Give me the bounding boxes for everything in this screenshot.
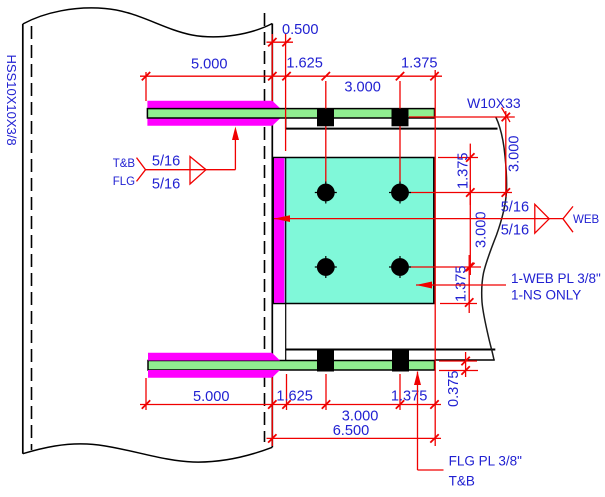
ext line column face top	[271, 34, 273, 101]
ext line plate left end	[145, 72, 147, 101]
ext line web plate top right	[438, 157, 478, 159]
ext line flange plate top right	[439, 360, 477, 362]
svg-text:FLG PL 3/8": FLG PL 3/8"	[449, 454, 523, 469]
svg-text:W10X33: W10X33	[467, 95, 521, 111]
bottom flange weld lower (magenta)	[148, 370, 280, 378]
leader 1-WEB PL	[416, 284, 506, 286]
web bolt B2	[389, 256, 411, 278]
svg-text:3.000: 3.000	[507, 135, 523, 172]
beam top flange bottom line	[286, 128, 498, 130]
web plate weld (magenta strip)	[274, 158, 285, 303]
dimension tick marks (red slashes)	[142, 38, 510, 443]
dimension extension lines (red)	[146, 34, 515, 446]
leader W10X33	[502, 108, 511, 123]
svg-text:HSS10X10X3/8: HSS10X10X3/8	[4, 55, 19, 146]
weld symbol T&B FLG (left)	[137, 140, 236, 184]
svg-text:0.375: 0.375	[446, 370, 462, 407]
svg-text:1-WEB PL 3/8": 1-WEB PL 3/8"	[511, 271, 601, 286]
dimension texts (blue)	[191, 22, 523, 439]
column right hidden wall (dashed)	[264, 13, 266, 442]
svg-text:5.000: 5.000	[193, 389, 230, 405]
dim line 3.000 middle right	[469, 185, 471, 275]
dim line 1.375 lower right	[468, 255, 470, 313]
web plate (cyan)	[274, 158, 434, 304]
svg-text:5/16: 5/16	[501, 223, 529, 239]
beam bottom flange top line	[286, 349, 496, 351]
svg-text:WEB: WEB	[573, 214, 600, 226]
weld arrow up to flange weld	[232, 127, 239, 141]
ext line beam end top	[285, 34, 287, 151]
ext line bolt column 2 bottom	[399, 374, 401, 410]
svg-text:1-NS ONLY: 1-NS ONLY	[511, 288, 581, 303]
leader FLG PL	[418, 372, 444, 471]
svg-text:6.500: 6.500	[333, 423, 370, 439]
dim line 0.500	[267, 41, 294, 43]
dim line 6.500	[267, 437, 442, 439]
ext line beam end bottom	[286, 374, 288, 410]
top flange bolt 2 (black square)	[392, 109, 409, 127]
bottom flange bolt 2 (black square)	[392, 349, 409, 372]
dim line 3.000 outer right	[505, 111, 507, 197]
web bolt A2	[389, 182, 411, 204]
ext line bolt column 1 top	[325, 81, 327, 193]
svg-text:5/16: 5/16	[152, 154, 180, 170]
column top break line	[23, 8, 272, 37]
web bolt B1	[315, 256, 337, 278]
beam end cut line	[285, 119, 287, 130]
bottom flange bolt 1 (black square)	[317, 349, 334, 372]
beam break line (right end)	[482, 117, 507, 360]
ext line bolt row 2 right	[409, 266, 481, 268]
bottom flange plate (green)	[148, 361, 435, 371]
svg-text:1.625: 1.625	[276, 389, 313, 405]
svg-text:1.375: 1.375	[456, 152, 472, 189]
dim line 1.375 upper right	[469, 144, 471, 205]
dimension lines (red)	[140, 42, 506, 438]
column bottom break line	[23, 444, 272, 462]
beam bottom flange bottom line beyond plate	[435, 359, 495, 361]
ext line bolt row 1 right	[409, 192, 512, 194]
ext line beam flange top right	[409, 116, 515, 118]
svg-text:5.000: 5.000	[191, 56, 228, 72]
svg-text:0.500: 0.500	[282, 22, 319, 38]
svg-text:5/16: 5/16	[501, 200, 529, 216]
bottom flange weld upper (magenta)	[148, 353, 280, 361]
top flange weld upper (magenta)	[147, 101, 280, 109]
ext line bolt column 1 bottom	[325, 374, 327, 410]
dim line 0.375 right	[465, 352, 467, 377]
top flange bolt 1 (black square)	[317, 109, 334, 127]
weld arrow left at web plate	[274, 215, 290, 222]
ext line plate left end bottom	[145, 378, 147, 410]
ext line column face bottom	[271, 378, 273, 447]
svg-text:1.625: 1.625	[286, 55, 323, 71]
svg-text:1.375: 1.375	[454, 265, 470, 302]
ext line bolt column 2 top	[399, 81, 401, 193]
svg-text:5/16: 5/16	[152, 176, 180, 192]
svg-text:FLG: FLG	[113, 176, 135, 188]
column left hidden wall (dashed)	[31, 26, 33, 450]
weld symbol WEB (right)	[274, 204, 573, 233]
ext line flange plate bottom right	[439, 370, 478, 372]
dim line bottom chain	[140, 404, 441, 406]
ext line plate right end (long)	[434, 70, 436, 446]
web bolt A1	[315, 182, 337, 204]
top flange weld lower (magenta)	[147, 118, 280, 126]
svg-text:1.375: 1.375	[401, 55, 438, 71]
svg-text:3.000: 3.000	[344, 80, 381, 96]
dim line top chain	[140, 75, 442, 77]
svg-text:1.375: 1.375	[391, 389, 428, 405]
column HSS10X10X3/8 left edge	[22, 24, 24, 454]
ext line web plate bottom right	[440, 303, 477, 305]
top flange plate (green)	[147, 109, 434, 118]
svg-text:3.000: 3.000	[474, 211, 490, 248]
column right edge	[271, 24, 273, 448]
svg-text:T&B: T&B	[113, 158, 136, 170]
svg-text:T&B: T&B	[449, 474, 475, 489]
